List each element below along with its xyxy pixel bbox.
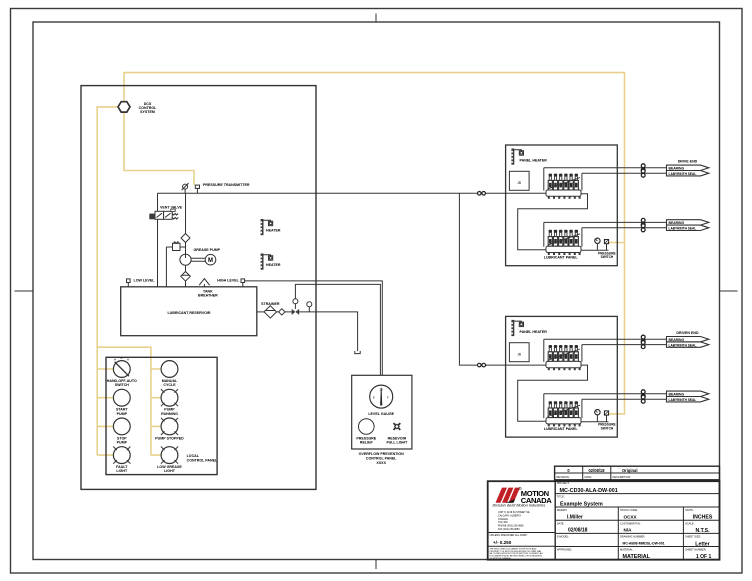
svg-text:DRAWN:: DRAWN:	[557, 508, 568, 512]
svg-text:+/- 0.250: +/- 0.250	[493, 540, 512, 545]
svg-text:VENT VALVE: VENT VALVE	[160, 205, 183, 209]
svg-text:RUNNING: RUNNING	[161, 412, 178, 416]
svg-text:FULL LIGHT: FULL LIGHT	[386, 441, 408, 445]
svg-text:Letter: Letter	[695, 541, 709, 547]
svg-text:TITLE:: TITLE:	[557, 495, 565, 499]
svg-text:DRIVE END: DRIVE END	[678, 160, 698, 164]
svg-text:DATE:: DATE:	[585, 475, 593, 479]
svg-text:PUMP: PUMP	[117, 441, 128, 445]
svg-text:XXXX: XXXX	[376, 461, 386, 465]
svg-text:MC-CD30-ALA-DW-001: MC-CD30-ALA-DW-001	[560, 488, 618, 494]
svg-text:SWITCH: SWITCH	[115, 383, 130, 387]
svg-text:PRESSURE TRANSMITTER: PRESSURE TRANSMITTER	[203, 183, 250, 187]
svg-text:N/A: N/A	[624, 528, 633, 533]
svg-text:02/08/18: 02/08/18	[568, 528, 588, 534]
svg-text:DESCRIPTION:: DESCRIPTION:	[613, 475, 632, 479]
svg-text:LIGHT: LIGHT	[116, 469, 128, 473]
svg-text:SHEET SIZE:: SHEET SIZE:	[685, 534, 701, 538]
svg-text:F: F	[387, 396, 389, 400]
svg-text:STRAINER: STRAINER	[261, 302, 280, 306]
svg-text:UNLESS SPECIFIED ALL DIMS:: UNLESS SPECIFIED ALL DIMS:	[490, 533, 528, 537]
svg-text:CUSTOMER P/N:: CUSTOMER P/N:	[620, 521, 641, 525]
svg-text:DATE:: DATE:	[557, 521, 565, 525]
svg-text:HEATER: HEATER	[266, 263, 281, 267]
svg-text:SCALE:: SCALE:	[685, 521, 695, 525]
svg-text:Division de/of Motion Industri: Division de/of Motion Industries	[493, 504, 546, 508]
svg-text:LIGHT: LIGHT	[164, 469, 176, 473]
svg-text:CYCLE: CYCLE	[163, 383, 176, 387]
svg-text:02/08/18: 02/08/18	[589, 468, 606, 473]
svg-text:STOCK CODE:: STOCK CODE:	[620, 508, 638, 512]
svg-text:I.Miller: I.Miller	[567, 514, 583, 520]
svg-text:M: M	[208, 258, 213, 264]
svg-text:DRIVEN END: DRIVEN END	[676, 331, 699, 335]
svg-text:E: E	[373, 396, 375, 400]
svg-text:LUBRICANT RESERVOIR: LUBRICANT RESERVOIR	[167, 311, 210, 315]
svg-text:MC-AB08-MMDSL-DW-001: MC-AB08-MMDSL-DW-001	[623, 542, 665, 546]
svg-text:PUMP: PUMP	[117, 412, 128, 416]
svg-text:FAX (403) 236-0883: FAX (403) 236-0883	[498, 528, 520, 531]
svg-text:SYSTEM: SYSTEM	[140, 110, 155, 114]
svg-text:APPROVED:: APPROVED:	[557, 548, 572, 552]
svg-text:DRAWING NUMBER:: DRAWING NUMBER:	[620, 534, 645, 538]
svg-text:H: H	[114, 357, 116, 361]
svg-text:OCXX: OCXX	[624, 515, 638, 520]
svg-text:INCHES: INCHES	[693, 515, 713, 521]
svg-text:BREATHER: BREATHER	[198, 294, 218, 298]
svg-text:PUMP STOPPED: PUMP STOPPED	[155, 436, 184, 440]
svg-text:CONTROL PANEL: CONTROL PANEL	[366, 456, 397, 460]
svg-text:OVERFLOW PREVENTION: OVERFLOW PREVENTION	[359, 452, 405, 456]
svg-text:UNITS:: UNITS:	[685, 508, 694, 512]
svg-text:HEATER: HEATER	[266, 229, 281, 233]
svg-text:A: A	[127, 357, 129, 361]
svg-text:MATERIAL:: MATERIAL:	[620, 548, 634, 552]
svg-text:OF MOTION CANADA.: OF MOTION CANADA.	[490, 557, 512, 560]
svg-text:GREASE PUMP: GREASE PUMP	[194, 248, 221, 252]
svg-text:SHEET NUMBER:: SHEET NUMBER:	[685, 548, 707, 552]
svg-text:LEVEL GAUGE: LEVEL GAUGE	[368, 412, 394, 416]
svg-text:REVISION:: REVISION:	[557, 475, 570, 479]
svg-text:Example System: Example System	[560, 501, 603, 507]
svg-text:CONTROL PANEL: CONTROL PANEL	[187, 458, 218, 462]
svg-text:N.T.S.: N.T.S.	[695, 528, 710, 534]
svg-text:PROJECT:: PROJECT:	[557, 481, 570, 485]
svg-text:Original: Original	[622, 468, 637, 473]
svg-text:LOW LEVEL: LOW LEVEL	[134, 279, 156, 283]
svg-text:RELIEF: RELIEF	[360, 441, 374, 445]
svg-text:MATERIAL: MATERIAL	[623, 554, 651, 560]
svg-text:HIGH LEVEL: HIGH LEVEL	[217, 279, 239, 283]
svg-text:1 OF 1: 1 OF 1	[696, 554, 712, 560]
svg-text:S-MODEL:: S-MODEL:	[557, 534, 570, 538]
